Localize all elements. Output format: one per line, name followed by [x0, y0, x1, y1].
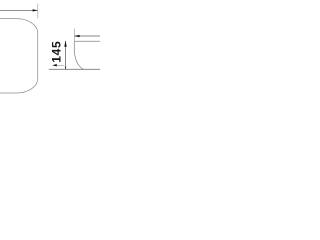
- svg-text:145: 145: [50, 41, 64, 63]
